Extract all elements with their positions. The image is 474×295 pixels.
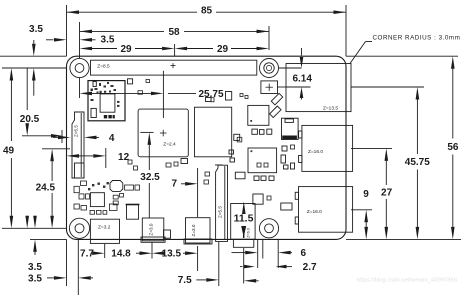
top edge extension (right) xyxy=(346,55,458,57)
extension line hole column under H1 xyxy=(79,78,81,98)
connector J11 centre extension xyxy=(197,168,199,217)
svg-text:Z=5.5: Z=5.5 xyxy=(74,125,79,137)
HDMI centre extension xyxy=(151,243,153,259)
dimension 3.5 bottom-left (hole to bottom edge) xyxy=(34,216,36,219)
USB1 centreline extension (right) xyxy=(351,147,392,149)
svg-text:24.5: 24.5 xyxy=(36,182,56,193)
SoC U2 Z=2.4 (BCM2837) xyxy=(138,109,188,157)
svg-text:Z=3.2: Z=3.2 xyxy=(98,224,111,230)
SoC centre row tick xyxy=(140,131,153,133)
svg-text:Z=3.0: Z=3.0 xyxy=(191,224,196,236)
USB stack J2 Z=16.0 (upper) xyxy=(302,125,353,171)
hole H4 left edge extension xyxy=(257,239,259,268)
centre tick column xyxy=(174,44,176,56)
svg-text:6.14: 6.14 xyxy=(292,74,312,85)
dimension 27 (USB1 centre to bottom) xyxy=(385,148,389,161)
svg-text:13.5: 13.5 xyxy=(162,249,182,260)
feature line y=148.8 (left) xyxy=(42,148,70,150)
camera-side connector J11 Z=3.0 xyxy=(186,218,211,243)
dimension 4 (DSI width) xyxy=(53,136,58,138)
audio jack J7 xyxy=(231,204,255,240)
extension line hole column H1 (top) xyxy=(79,22,81,58)
inductor L1 xyxy=(110,181,123,192)
wireless module shield can xyxy=(100,94,115,112)
audio centre extension (bottom) xyxy=(243,248,245,284)
mounting hole H2 top-right xyxy=(260,59,279,78)
LAN chip U5 xyxy=(248,148,277,173)
svg-text:56: 56 xyxy=(447,142,459,153)
svg-text:58: 58 xyxy=(168,27,180,38)
corner radius note leader xyxy=(350,42,366,64)
svg-text:Z=5.5: Z=5.5 xyxy=(217,206,222,218)
hole row extension to 6.14 xyxy=(279,67,302,69)
USB J4 tabs xyxy=(295,192,298,199)
PMIC cluster small parts xyxy=(74,186,79,192)
dimension 29 (right half) xyxy=(175,47,188,51)
svg-text:27: 27 xyxy=(381,188,393,199)
CSI centre extension (bottom) xyxy=(218,242,220,286)
dimension 6.14 (ethernet centre from hole row) xyxy=(301,48,303,56)
svg-text:Z=16.0: Z=16.0 xyxy=(308,149,323,155)
dimension 58 (hole spacing) xyxy=(80,30,165,32)
svg-text:25.75: 25.75 xyxy=(198,89,223,100)
extension line hole column H1 (bottom) xyxy=(77,239,79,295)
dimension 6 xyxy=(232,252,246,254)
svg-text:7.5: 7.5 xyxy=(178,275,192,286)
svg-text:Z=16.0: Z=16.0 xyxy=(307,209,322,215)
dimension 20.5 xyxy=(26,68,28,110)
dimension 3.5 (hole offset from left edge, top) xyxy=(46,39,54,41)
HDMI connector J10 Z=3.0 xyxy=(142,218,164,241)
svg-text:Z=2.4: Z=2.4 xyxy=(163,142,176,148)
svg-text:20.5: 20.5 xyxy=(20,114,40,125)
wireless module crystal xyxy=(91,108,96,117)
extension line left edge (top) xyxy=(66,5,68,56)
PoE link line to ethernet xyxy=(278,86,287,88)
svg-text:Z=8.5: Z=8.5 xyxy=(97,64,110,70)
SDRAM U3 xyxy=(195,107,232,157)
dimension 12 xyxy=(67,154,80,158)
misc small parts field xyxy=(128,79,133,84)
feature line y=135.8 (left) xyxy=(22,135,56,137)
svg-text:49: 49 xyxy=(3,145,15,156)
feature extension x=262.8 xyxy=(262,239,264,258)
board outline (85x56 PCB, corner radius 3.0mm) xyxy=(67,56,347,239)
magnetics T1 xyxy=(282,118,299,139)
svg-text:32.5: 32.5 xyxy=(140,172,160,183)
dimension 25.75 (SoC centre from hole column) xyxy=(80,92,93,96)
dimension 9 (USB2 centre to bottom) xyxy=(364,210,368,223)
hole H4 right edge extension xyxy=(277,239,279,268)
DSI display connector J3 Z=5.5 xyxy=(72,112,84,178)
extension line right edge (top) xyxy=(345,5,347,56)
CSI camera connector J6 Z=5.5 xyxy=(216,165,228,241)
SoC centre column extension xyxy=(162,71,164,118)
USB stack J4 Z=16.0 (lower) xyxy=(299,187,353,233)
USB J2 tabs xyxy=(299,131,302,138)
extension line hole column H2 (top) xyxy=(268,26,270,50)
svg-text:3.5: 3.5 xyxy=(28,273,42,284)
ethernet centreline extension (right) xyxy=(351,86,424,88)
svg-text:https://blog.csdn.net/weixin_4: https://blog.csdn.net/weixin_43997856 xyxy=(357,278,458,284)
svg-text:7: 7 xyxy=(172,179,178,190)
extension line hole row 1 (left) xyxy=(2,67,66,69)
dimension 13.5 xyxy=(152,251,165,255)
ethernet jack J1 Z=13.5 xyxy=(286,64,351,112)
bottom edge extension (right) xyxy=(346,238,461,240)
dimension 3.5 top-left (hole to top edge) xyxy=(33,40,35,44)
dimension 49 (hole row spacing) xyxy=(10,68,14,81)
dimension 45.75 (ethernet centre to bottom) xyxy=(416,87,420,100)
electrolytic capacitor C1 xyxy=(127,205,139,220)
audio jack pin marker xyxy=(241,226,246,237)
dimension 32.5 (SoC centre from bottom edge) xyxy=(148,132,152,145)
top edge extension (left) xyxy=(0,55,67,57)
svg-text:12: 12 xyxy=(118,152,130,163)
tilted part D1 xyxy=(271,93,282,104)
wireless module U1 shield outline xyxy=(88,81,125,121)
wireless module pads row xyxy=(104,115,107,118)
stray arrow onto hole row 2 xyxy=(26,215,28,217)
dimension 2.7 xyxy=(240,266,242,268)
mounting hole H1 top-left xyxy=(70,58,89,77)
extension line left edge (bottom) xyxy=(66,239,68,286)
svg-text:Z=13.5: Z=13.5 xyxy=(323,105,338,111)
tiny dark bits near PMIC xyxy=(92,184,94,186)
dimension 85 (board width) xyxy=(67,11,198,13)
micro-USB power J9 Z=3.2 xyxy=(90,219,119,243)
svg-text:29: 29 xyxy=(120,44,132,55)
svg-text:CORNER RADIUS : 3.0mm: CORNER RADIUS : 3.0mm xyxy=(373,34,461,41)
DSI flange bottom xyxy=(75,163,85,178)
GPIO 40-pin header J8 Z=8.5 xyxy=(91,60,257,75)
mounting hole H4 bottom-right xyxy=(259,219,278,238)
svg-text:29: 29 xyxy=(217,44,229,55)
wireless module small parts xyxy=(93,82,96,87)
svg-text:85: 85 xyxy=(201,5,213,16)
GPIO centre mark xyxy=(171,65,176,67)
dimension 11.5 (audio jack top from bottom edge) xyxy=(242,202,246,215)
PoE header J14 xyxy=(261,81,278,94)
svg-text:14.8: 14.8 xyxy=(111,249,131,260)
PMIC U6 xyxy=(90,193,104,207)
svg-text:9: 9 xyxy=(363,189,369,200)
dimension 56 (board height) xyxy=(451,56,455,68)
ethernet centreline inside xyxy=(286,86,311,88)
mounting hole H3 bottom-left xyxy=(69,218,89,238)
SoC centre mark xyxy=(160,132,167,134)
feature tick x=62 xyxy=(61,130,63,143)
bottom edge extension (left) xyxy=(30,238,67,240)
svg-text:3.5: 3.5 xyxy=(28,262,42,273)
svg-text:Z=6.0: Z=6.0 xyxy=(247,228,251,238)
svg-text:Z=3.0: Z=3.0 xyxy=(149,223,154,235)
svg-text:6: 6 xyxy=(301,248,307,259)
tilted part D2 xyxy=(270,106,281,117)
svg-text:11.5: 11.5 xyxy=(234,213,254,225)
dimension 29 (left half) xyxy=(80,47,93,51)
svg-text:3.5: 3.5 xyxy=(101,34,115,45)
USB2 centreline extension (right) xyxy=(351,209,372,211)
extension line hole row 2 (left) xyxy=(2,227,66,229)
small part at bottom edge xyxy=(164,230,171,238)
svg-text:2.7: 2.7 xyxy=(303,262,317,273)
micro-USB centre extension xyxy=(104,244,106,258)
USB hub chip U4 xyxy=(248,105,269,125)
svg-text:3.5: 3.5 xyxy=(29,24,43,35)
svg-text:45.75: 45.75 xyxy=(405,157,430,168)
svg-text:4: 4 xyxy=(109,133,115,144)
feature tick x=105.8 xyxy=(105,148,107,168)
dimension 24.5 xyxy=(50,149,54,162)
